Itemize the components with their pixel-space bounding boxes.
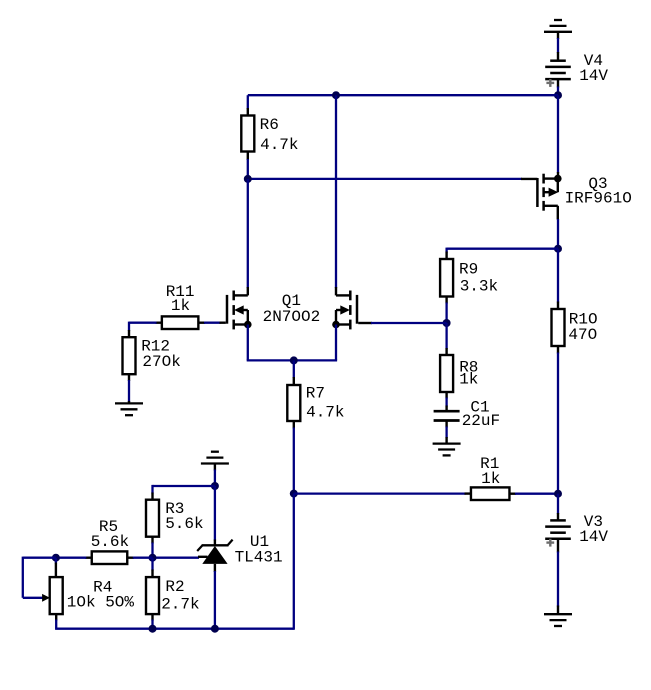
wire Q3 drain down (557, 206, 560, 249)
wire R5 left to R4 top node (56, 557, 92, 559)
label R6 value 4.7k (260, 136, 298, 154)
label V4 value 14V (579, 67, 608, 85)
svg-text:5.6k: 5.6k (91, 533, 129, 551)
resistor R10 (552, 309, 565, 346)
wire wiper loop (node left-down-right to wiper arrow) (23, 557, 56, 598)
svg-text:2.7k: 2.7k (161, 596, 199, 614)
node +14V rail / V4 (554, 91, 562, 99)
wire R2 to rail (151, 614, 153, 629)
node R7 / R1 / lower network (290, 490, 298, 498)
resistor R3 (146, 500, 159, 537)
wire R8 to C1 (445, 392, 447, 411)
ground (top, V4 negative) (544, 20, 572, 39)
resistor R12 (123, 337, 136, 374)
wire V3 to ground (557, 552, 559, 607)
label R3 name (165, 500, 184, 518)
svg-text:R7: R7 (306, 384, 325, 402)
label R5 name (99, 518, 118, 536)
svg-text:R9: R9 (459, 261, 478, 279)
wire R11 left to R12 corner (129, 322, 162, 338)
resistor R8 (440, 355, 453, 392)
wire feedback node to R1 (294, 492, 471, 494)
label Q3 name (588, 175, 607, 193)
node output / R10 / R1 / V3 (554, 490, 562, 498)
label R7 name (306, 384, 325, 402)
label R10 name (569, 310, 598, 328)
label R5 value 5.6k (91, 533, 129, 551)
label R12 value 270k (142, 353, 180, 371)
wire R10 down to output node (557, 346, 559, 494)
ground (V3) (544, 606, 572, 627)
node top rail / Q1 right drain (332, 91, 340, 99)
label R2 name (165, 578, 184, 596)
capacitor C1 (434, 411, 460, 420)
svg-text:R2: R2 (165, 578, 184, 596)
node R6 / Q3 gate / Q1 left drain (244, 175, 252, 183)
wire divider node to R2 (151, 558, 153, 577)
wire U1 anode to rail (214, 564, 216, 629)
nmos Q1 right 2N7002 (332, 291, 357, 330)
ground (C1) (433, 444, 461, 456)
label V4 name (584, 52, 603, 70)
wire common source horizontal (247, 359, 337, 361)
label U1 name (250, 533, 269, 551)
wire V4 node down to Q3 source (557, 95, 559, 178)
svg-text:1k: 1k (481, 470, 500, 488)
node Q3 drain / R9 / R10 (554, 245, 562, 253)
label R2 value 2.7k (161, 596, 199, 614)
wire R4 bottom to rail (55, 614, 57, 629)
wire rail up to feedback node (293, 494, 295, 630)
node ground / R3 / U1 cathode (211, 482, 219, 490)
wire R6 to Q1 drain node (247, 152, 249, 180)
node R4 top / R5 / wiper loop (52, 554, 60, 562)
label R4 value 10k 50% (67, 594, 135, 612)
node common sources / R7 (290, 356, 298, 364)
node divider R3 / R2 / R5 / U1 ref (149, 554, 157, 562)
wire Q1 drain node to Q3 gate (248, 178, 538, 180)
label R1 value 1k (481, 470, 500, 488)
label V3 name (584, 513, 603, 531)
wire bottom rail (55, 628, 294, 630)
node R2 / rail (149, 625, 157, 633)
label R12 name (141, 337, 170, 355)
label C1 value 22uF (462, 412, 500, 430)
label R9 value 3.3k (460, 278, 498, 296)
wire node to R3 corner (153, 485, 215, 500)
svg-text:4.7k: 4.7k (306, 403, 344, 421)
wire Q1 right gate to node (358, 322, 446, 324)
battery V3 (545, 520, 571, 552)
wire Q1 left drain (node to transistor) (247, 179, 249, 296)
label Q1 name (282, 292, 301, 310)
label Q3 part IRF9610 (565, 190, 632, 208)
shunt reference U1 TL431 (197, 540, 232, 564)
svg-text:47O: 47O (568, 326, 597, 344)
label C1 name (470, 399, 489, 417)
wire R1 to output node (510, 493, 559, 495)
label R11 value 1k (171, 297, 190, 315)
resistor R6 (241, 116, 254, 152)
svg-text:27Ok: 27Ok (142, 353, 180, 371)
wire R12 to ground (128, 374, 130, 403)
wire divider node to R5 (127, 557, 152, 559)
resistor R11 (162, 316, 199, 329)
wire node to V3 (557, 494, 559, 521)
wire node to R10 (557, 249, 559, 309)
wire ground to node (214, 470, 216, 487)
wire U1 cathode (214, 486, 216, 546)
battery V4 (545, 52, 571, 88)
label R1 name (480, 455, 499, 473)
resistor R9 (440, 259, 453, 297)
wire Q1 right source down (335, 325, 337, 361)
node R9 / R8 / Q1 right gate (443, 319, 451, 327)
wire node to R8 (445, 323, 447, 355)
label V3 value 14V (579, 528, 608, 546)
wire R7 down to feedback node (293, 421, 295, 494)
wire node to R4 top (55, 558, 57, 577)
wire R3 to divider node (151, 537, 153, 558)
resistor R2 (146, 577, 159, 614)
svg-text:5.6k: 5.6k (165, 515, 203, 533)
svg-text:14V: 14V (579, 67, 608, 85)
svg-text:22uF: 22uF (462, 412, 500, 430)
label R6 name (260, 116, 279, 134)
wire ground to V4 (557, 38, 559, 53)
wire U1 reference to divider node (153, 556, 208, 559)
resistor R1 (471, 487, 510, 500)
wire V4 to +14V rail node (557, 87, 559, 96)
label U1 part TL431 (235, 548, 283, 566)
wire C1 to ground (445, 421, 447, 444)
label R8 value 1k (459, 371, 478, 389)
wire Q3 drain node to R9 (447, 248, 558, 259)
label R11 name (166, 283, 195, 301)
potentiometer R4 10k 50% (42, 577, 63, 614)
wire rail corner to R6 (247, 95, 249, 115)
label R8 name (459, 358, 478, 376)
svg-text:3.3k: 3.3k (460, 278, 498, 296)
wire R11 to Q1 left gate (198, 322, 226, 324)
svg-text:2N7OO2: 2N7OO2 (263, 308, 321, 326)
resistor R5 (92, 551, 128, 564)
wire top +14V rail (248, 94, 558, 96)
label R9 name (459, 261, 478, 279)
resistor R7 (287, 385, 300, 421)
ground (R12) (115, 403, 143, 415)
wire Q1 right drain (rail to transistor) (335, 95, 337, 295)
svg-text:4.7k: 4.7k (260, 136, 298, 154)
label R4 name (93, 578, 112, 596)
wire node to R7 (293, 360, 295, 385)
ground (TL431 / R3 top) (201, 452, 229, 471)
pmos Q3 IRF9610 (537, 174, 561, 211)
wire R9 to R8 node (445, 297, 447, 324)
svg-text:1k: 1k (171, 297, 190, 315)
nmos Q1 left 2N7002 (227, 291, 252, 330)
svg-text:14V: 14V (579, 528, 608, 546)
label R10 value 470 (568, 326, 597, 344)
svg-text:1k: 1k (459, 371, 478, 389)
label R7 value 4.7k (306, 403, 344, 421)
label Q1 part 2N7002 (263, 308, 321, 326)
svg-text:R6: R6 (260, 116, 279, 134)
svg-text:IRF961O: IRF961O (565, 190, 632, 208)
node U1 anode / rail (211, 625, 219, 633)
label R3 value 5.6k (165, 515, 203, 533)
svg-text:TL431: TL431 (235, 548, 283, 566)
wire Q1 left source down (247, 325, 249, 361)
svg-text:1Ok 5O%: 1Ok 5O% (67, 594, 135, 612)
